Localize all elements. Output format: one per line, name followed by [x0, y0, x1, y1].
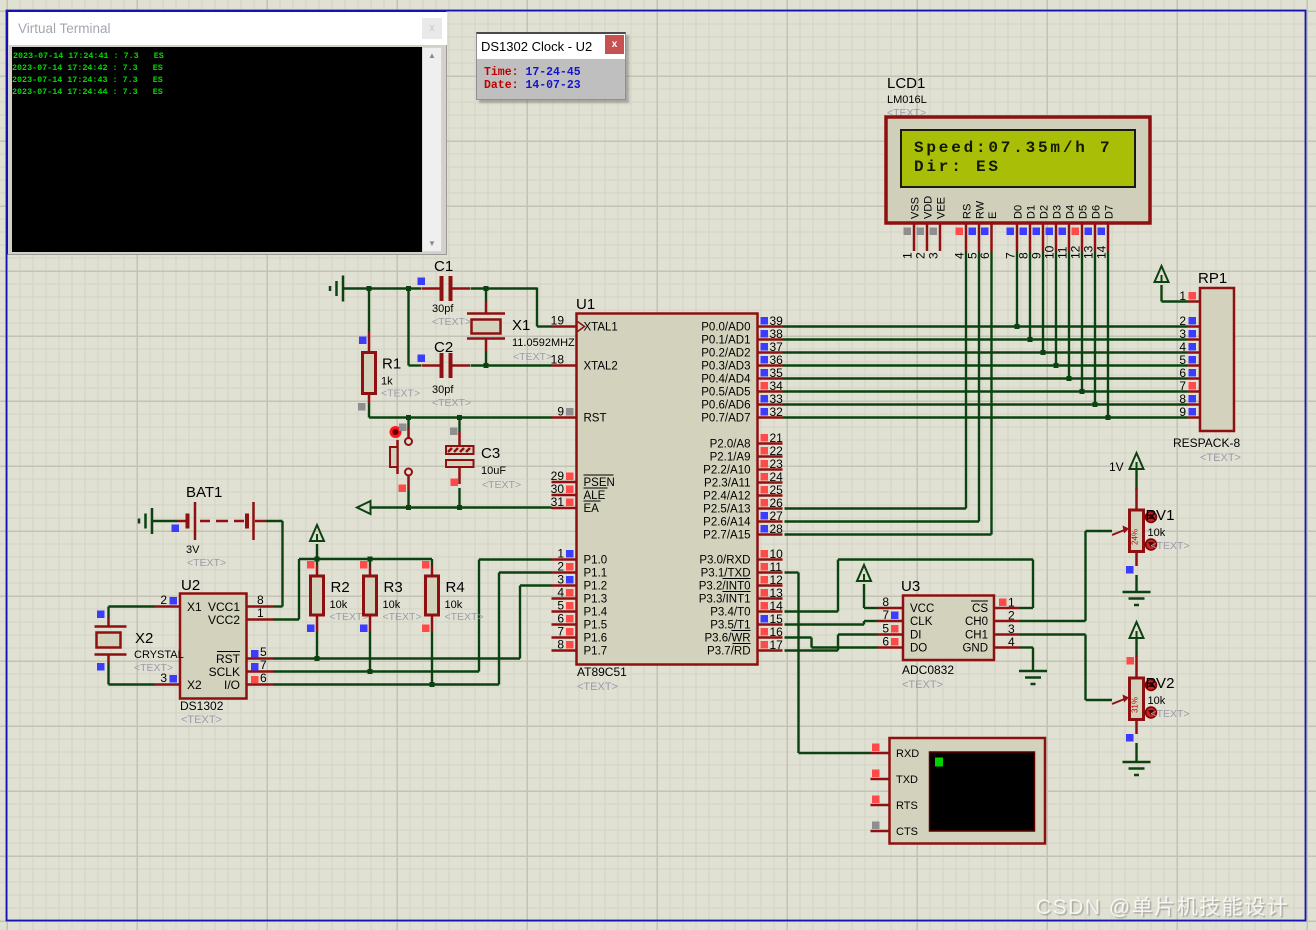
svg-text:VCC1: VCC1 — [208, 600, 240, 614]
resistor R4 body — [426, 576, 439, 615]
svg-text:RV1: RV1 — [1146, 507, 1175, 524]
pin U1.3 P1.2 (left) — [552, 584, 577, 587]
resistor R1 body — [363, 353, 376, 394]
svg-text:6: 6 — [557, 612, 564, 626]
pin U1.25 P2.4/A12 (right) — [758, 494, 783, 497]
svg-text:P1.1: P1.1 — [584, 568, 608, 580]
resistor R4 top stub — [431, 566, 434, 576]
pin U3.5 DI (left) — [878, 633, 904, 636]
svg-text:D0: D0 — [1013, 205, 1025, 219]
svg-text:SCLK: SCLK — [209, 665, 240, 679]
svg-text:X2: X2 — [135, 630, 153, 647]
svg-text:P1.3: P1.3 — [584, 594, 608, 606]
pin LCD1.6 E — [990, 223, 993, 251]
svg-text:29: 29 — [551, 469, 565, 483]
resistor R2 bottom state square — [307, 625, 315, 633]
svg-text:7: 7 — [882, 608, 889, 622]
svg-text:P2.1/A9: P2.1/A9 — [710, 452, 751, 464]
svg-text:5: 5 — [882, 622, 889, 636]
pin terminal TXD — [871, 778, 890, 781]
wire CLK net: U1 P3.5 pin15 to U3 CLK pin7 — [785, 623, 865, 625]
potentiometer RV1 body — [1130, 510, 1144, 552]
svg-text:AT89C51: AT89C51 — [577, 665, 627, 679]
potentiometer RV2 wiper arrow — [1112, 699, 1125, 704]
svg-text:RS: RS — [962, 204, 974, 219]
svg-text:14: 14 — [770, 599, 784, 613]
button bottom stub — [407, 476, 410, 491]
svg-text:VCC2: VCC2 — [208, 613, 240, 627]
svg-text:D6: D6 — [1091, 205, 1103, 219]
pin terminal RTS — [871, 804, 890, 807]
wire CH1 net: U3 pin3 to RV2 wiper — [1020, 633, 1086, 635]
svg-text:8: 8 — [1179, 392, 1186, 406]
pin U1.15 P3.5/T1 (right) — [758, 623, 783, 626]
capacitor C3 top state square — [450, 428, 458, 436]
pin U3.1 CS (right) — [994, 607, 1020, 610]
capacitor C3 top lead — [458, 432, 461, 446]
pin U1.14 P3.4/T0 (right) — [758, 610, 783, 613]
pin RP1.1 — [1187, 300, 1200, 303]
pin U3.2 CH0 (right) — [994, 620, 1020, 623]
wire C3 bottom to EA rail — [458, 488, 460, 508]
pin U1.5 P1.4 (left) — [552, 610, 577, 613]
svg-text:<TEXT>: <TEXT> — [181, 714, 222, 726]
pin U1.35 P0.4/AD4 (right) — [758, 377, 783, 380]
resistor R3 top stub — [369, 566, 372, 576]
pin U1.38 P0.1/AD1 (right) — [758, 338, 783, 341]
pin U1.16 P3.6/WR (right) — [758, 636, 783, 639]
wire R2 bottom — [316, 632, 318, 659]
svg-text:8: 8 — [557, 638, 564, 652]
virtual terminal component screen — [930, 752, 1035, 831]
wire U2 I/O net: pin6 to R4 bottom and P1.1 — [273, 683, 499, 685]
capacitor C2 state square — [418, 355, 426, 363]
wire XTAL1 net: ground rail to C1, X1 top, U1 pin19 — [344, 287, 422, 289]
node junction top rail at R1 — [367, 286, 372, 291]
svg-text:<TEXT>: <TEXT> — [432, 316, 471, 328]
pin LCD1.5 RW — [978, 223, 981, 251]
button bottom state square — [399, 485, 407, 493]
svg-text:30pf: 30pf — [432, 384, 454, 396]
pin U2.1 VCC2 (right) — [247, 618, 274, 621]
svg-text:8: 8 — [257, 593, 264, 607]
wire RP1 pin1 to power arrow — [1162, 300, 1188, 302]
pin U3.8 VCC (left) — [878, 607, 904, 610]
svg-text:ALE: ALE — [584, 490, 606, 502]
svg-text:P0.3/AD3: P0.3/AD3 — [701, 361, 750, 373]
capacitor C2 right lead — [453, 364, 471, 367]
pin U1.2 P1.1 (left) — [552, 571, 577, 574]
wire P0.1 net: U1 pin 38 to LCD D1 and RP1 pin 3 — [783, 338, 1188, 340]
svg-text:21: 21 — [770, 431, 784, 445]
resistor R2 bottom stub — [316, 615, 319, 632]
capacitor C2 plates — [440, 353, 444, 378]
svg-text:10k: 10k — [445, 599, 463, 611]
pin LCD1.3 VEE — [939, 223, 942, 251]
wire RV2 top stub from power — [1135, 638, 1137, 657]
wire X2 bottom to U2 X2 pin 3 — [107, 663, 109, 685]
wire P0.5 net: U1 pin 34 to LCD D5 and RP1 pin 7 — [783, 390, 1188, 392]
svg-text:TXD: TXD — [896, 774, 918, 786]
wire P0.7 net: U1 pin 32 to LCD D7 and RP1 pin 9 — [783, 416, 1188, 418]
svg-text:PSEN: PSEN — [584, 477, 615, 489]
wire P0.0 net: U1 pin 39 to LCD D0 and RP1 pin 2 — [783, 325, 1188, 327]
svg-text:RW: RW — [975, 200, 987, 219]
svg-text:P1.6: P1.6 — [584, 633, 608, 645]
wire BAT1 negative to ground — [152, 520, 177, 522]
pin terminal RXD — [871, 752, 890, 755]
button (reset) terminals and actuator — [405, 438, 412, 445]
svg-text:12: 12 — [1069, 245, 1083, 259]
svg-text:P2.7/A15: P2.7/A15 — [703, 530, 750, 542]
lcd LCD1 body — [886, 117, 1150, 223]
pin LCD1.2 VDD — [926, 223, 929, 251]
svg-text:X2: X2 — [187, 678, 202, 692]
svg-text:<TEXT>: <TEXT> — [1200, 452, 1241, 464]
svg-text:X1: X1 — [187, 600, 202, 614]
wire R4 top stub to rail — [431, 559, 433, 566]
resistor R1 bottom state square — [358, 403, 366, 411]
node junction EA rail at button bottom — [406, 505, 411, 510]
pin U1.22 P2.1/A9 (right) — [758, 455, 783, 458]
svg-text:<TEXT>: <TEXT> — [381, 388, 420, 400]
wire BAT1 positive to U2 VCC1 pin 8 — [266, 520, 283, 522]
node junction P0.7 at LCD D7 — [1106, 415, 1111, 420]
node junction P0.5 at LCD D5 — [1080, 389, 1085, 394]
svg-text:1k: 1k — [381, 376, 393, 388]
crystal X2 bottom state square — [97, 663, 105, 671]
crystal X1 bottom lead — [485, 339, 488, 352]
svg-text:BAT1: BAT1 — [186, 484, 222, 501]
crystal X2 bottom lead — [107, 655, 110, 664]
window Virtual Terminal — [7, 11, 447, 255]
svg-text:19: 19 — [551, 314, 565, 328]
svg-text:6: 6 — [260, 671, 267, 685]
capacitor C2 left lead — [422, 364, 440, 367]
svg-text:CS: CS — [972, 603, 988, 615]
wire resistor top rail R2 R3 R4 with power arrow — [299, 558, 432, 560]
svg-text:8: 8 — [1017, 252, 1031, 259]
svg-text:10: 10 — [1043, 245, 1057, 259]
wire P0.2 net: U1 pin 37 to LCD D2 and RP1 pin 4 — [783, 351, 1188, 353]
svg-text:<TEXT>: <TEXT> — [187, 557, 226, 569]
svg-text:R1: R1 — [382, 356, 401, 373]
svg-text:<TEXT>: <TEXT> — [1151, 708, 1190, 720]
pin RP1.6 — [1187, 377, 1200, 380]
pin LCD1.7 D0 — [1016, 223, 1019, 251]
svg-text:P3.0/RXD: P3.0/RXD — [699, 555, 750, 567]
svg-text:RV2: RV2 — [1146, 675, 1175, 692]
pin terminal CTS — [871, 830, 890, 833]
svg-text:6: 6 — [978, 252, 992, 259]
pin U1.37 P0.2/AD2 (right) — [758, 351, 783, 354]
wire X1 top lead green segment — [485, 289, 487, 302]
svg-text:2: 2 — [557, 560, 564, 574]
pin RP1.7 — [1187, 390, 1200, 393]
node junction top rail at X1 top lead — [484, 286, 489, 291]
svg-text:P3.2/INT0: P3.2/INT0 — [699, 581, 751, 593]
capacitor C1 right lead — [453, 287, 471, 290]
svg-text:P3.6/WR: P3.6/WR — [704, 633, 750, 645]
resistor R1 top state square — [359, 337, 367, 345]
svg-text:C2: C2 — [434, 339, 453, 356]
battery BAT1 cells — [177, 520, 186, 523]
pin RP1.3 — [1187, 338, 1200, 341]
svg-text:11: 11 — [1056, 246, 1070, 259]
pin U1.4 P1.3 (left) — [552, 597, 577, 600]
resistor R4 top state square — [422, 561, 430, 569]
svg-text:23: 23 — [770, 457, 784, 471]
svg-text:P2.6/A14: P2.6/A14 — [703, 517, 751, 529]
svg-text:P2.3/A11: P2.3/A11 — [704, 478, 750, 490]
pin LCD1.10 D3 — [1055, 223, 1058, 251]
pin U1.31 EA (left) — [552, 507, 577, 510]
svg-text:P3.5/T1: P3.5/T1 — [710, 620, 750, 632]
pin U1.32 P0.7/AD7 (right) — [758, 416, 783, 419]
button top stub — [407, 428, 410, 438]
ic U1 AT89C51 body — [577, 314, 758, 665]
svg-text:LM016L: LM016L — [887, 94, 927, 106]
pin U1.30 ALE (left) — [552, 494, 577, 497]
ground at U3 GND — [1019, 670, 1047, 673]
resistor R3 bottom stub — [369, 615, 372, 632]
svg-text:2: 2 — [1008, 609, 1015, 623]
node junction SCLK net at R3 bottom — [368, 669, 373, 674]
svg-text:2: 2 — [914, 252, 928, 259]
wire U2 SCLK net: pin7 to R3 bottom and P1.0 — [273, 670, 479, 672]
svg-text:VCC: VCC — [910, 603, 934, 615]
svg-text:<TEXT>: <TEXT> — [134, 662, 173, 674]
wire DO net: U1 P3.6 pin16 to U3 DO pin6 — [785, 636, 812, 638]
svg-text:D7: D7 — [1104, 205, 1116, 219]
button top state square — [399, 424, 407, 432]
svg-text:<TEXT>: <TEXT> — [902, 679, 943, 691]
pin U3.4 GND (right) — [994, 646, 1020, 649]
ground at BAT1 — [151, 508, 154, 534]
wire TXD net: U1 pin11 to terminal RXD — [785, 571, 799, 573]
svg-text:31%: 31% — [1131, 697, 1140, 713]
potentiometer RV2 bottom state square — [1126, 734, 1134, 742]
pin U1.34 P0.5/AD5 (right) — [758, 390, 783, 393]
svg-text:1: 1 — [1008, 596, 1015, 610]
pin U1.39 P0.0/AD0 (right) — [758, 325, 783, 328]
svg-text:<TEXT>: <TEXT> — [1151, 540, 1190, 552]
svg-text:1V: 1V — [1109, 460, 1124, 474]
wire LCD RW to U1 P2.6 pin 27 — [785, 520, 980, 522]
svg-text:R3: R3 — [384, 579, 403, 596]
pin U1.19 XTAL1 (left) — [552, 325, 577, 328]
wire P0.6 net: U1 pin 33 to LCD D6 and RP1 pin 8 — [783, 403, 1188, 405]
svg-text:U1: U1 — [576, 296, 595, 313]
svg-text:8: 8 — [882, 595, 889, 609]
svg-text:1: 1 — [257, 606, 264, 620]
svg-text:9: 9 — [1030, 252, 1044, 259]
power symbol above R2 — [310, 525, 324, 541]
svg-text:2: 2 — [1179, 314, 1186, 328]
pin U2.8 VCC1 (right) — [247, 605, 274, 608]
wire C2 left branch vertical from top rail — [407, 289, 409, 366]
pin U1.10 P3.0/RXD (right) — [758, 558, 783, 561]
svg-text:<TEXT>: <TEXT> — [513, 351, 552, 363]
svg-text:P1.2: P1.2 — [584, 581, 608, 593]
pin U1.1 P1.0 (left) — [552, 558, 577, 561]
svg-text:P1.4: P1.4 — [584, 607, 608, 619]
crystal X2 top lead — [107, 618, 110, 627]
pin U2.2 X1 (left) — [155, 605, 181, 608]
node junction XTAL2 at X1 bottom lead — [484, 363, 489, 368]
pin LCD1.12 D5 — [1081, 223, 1084, 251]
wire EA rail with left arrow endpoint — [357, 501, 371, 514]
svg-text:R4: R4 — [446, 579, 465, 596]
wire R4 bottom — [431, 632, 433, 685]
svg-text:P1.0: P1.0 — [584, 555, 608, 567]
node junction top rail at R2 — [315, 557, 320, 562]
svg-text:C1: C1 — [434, 258, 453, 275]
node junction P0.2 at LCD D2 — [1041, 350, 1046, 355]
svg-text:31: 31 — [551, 495, 565, 509]
svg-text:RXD: RXD — [896, 748, 919, 760]
svg-text:P0.1/AD1: P0.1/AD1 — [701, 335, 750, 347]
pin U1.8 P1.7 (left) — [552, 649, 577, 652]
svg-text:1: 1 — [557, 547, 564, 561]
svg-text:P3.1/TXD: P3.1/TXD — [701, 568, 751, 580]
wire P0.4 net: U1 pin 35 to LCD D4 and RP1 pin 6 — [783, 377, 1188, 379]
pin LCD1.11 D4 — [1068, 223, 1071, 251]
pin U1.29 PSEN (left) — [552, 481, 577, 484]
potentiometer RV2 body — [1130, 678, 1144, 720]
svg-text:9: 9 — [557, 405, 564, 419]
svg-text:CH1: CH1 — [965, 630, 988, 642]
virtual terminal component body — [890, 738, 1046, 844]
wire R3 bottom — [369, 632, 371, 672]
resistor R2 top stub — [316, 566, 319, 576]
svg-text:10k: 10k — [1148, 527, 1166, 539]
potentiometer RV1 wiper arrow — [1112, 530, 1125, 535]
wire RST rail: R1 bottom to U1 pin 9 — [368, 404, 370, 418]
svg-text:14: 14 — [1095, 245, 1109, 259]
potentiometer RV2 adjust buttons — [1146, 680, 1157, 691]
svg-text:<TEXT>: <TEXT> — [432, 397, 471, 409]
node junction RST rail at C3 — [457, 415, 462, 420]
svg-text:9: 9 — [1179, 405, 1186, 419]
svg-text:U3: U3 — [901, 578, 920, 595]
wire RV1 bottom to ground — [1135, 575, 1137, 592]
wire R1 top branch from top rail — [368, 289, 370, 333]
svg-text:28: 28 — [770, 522, 784, 536]
pin U1.18 XTAL2 (left) — [552, 364, 577, 367]
svg-text:35: 35 — [770, 366, 784, 380]
svg-text:<TEXT>: <TEXT> — [577, 681, 618, 693]
svg-text:3: 3 — [557, 573, 564, 587]
svg-text:I/O: I/O — [224, 678, 240, 692]
svg-text:27: 27 — [770, 509, 784, 523]
potentiometer RV2 top stub — [1135, 656, 1138, 678]
svg-text:13: 13 — [770, 586, 784, 600]
resistor R3 bottom state square — [360, 625, 368, 633]
svg-text:5: 5 — [260, 645, 267, 659]
svg-text:24: 24 — [770, 470, 784, 484]
node junction P0.0 at LCD D0 — [1015, 324, 1020, 329]
resistor R2 body — [311, 576, 324, 615]
svg-text:37: 37 — [770, 340, 784, 354]
wire CS net: U1 P3.4 pin14 to U3 CS pin1 — [785, 610, 839, 612]
svg-text:CH0: CH0 — [965, 616, 988, 628]
svg-text:<TEXT>: <TEXT> — [445, 611, 484, 623]
node junction top rail at C2 branch — [406, 286, 411, 291]
svg-text:P2.2/A10: P2.2/A10 — [703, 465, 750, 477]
node junction I/O net at R4 bottom — [430, 682, 435, 687]
pin U1.17 P3.7/RD (right) — [758, 649, 783, 652]
pin RP1.4 — [1187, 351, 1200, 354]
svg-text:3: 3 — [927, 252, 941, 259]
svg-text:LCD1: LCD1 — [887, 75, 925, 92]
svg-text:P1.7: P1.7 — [584, 646, 608, 658]
wire U3 GND pin4 to ground — [1020, 646, 1033, 648]
wire R3 top stub to rail — [369, 559, 371, 566]
svg-text:VDD: VDD — [923, 196, 935, 219]
svg-text:DI: DI — [910, 630, 922, 642]
capacitor C3 positive plate — [446, 446, 474, 454]
indicator red splat at reset button — [390, 426, 402, 438]
wire P0.3 net: U1 pin 36 to LCD D3 and RP1 pin 5 — [783, 364, 1188, 366]
pin U3.6 DO (left) — [878, 646, 904, 649]
svg-text:VSS: VSS — [910, 197, 922, 219]
svg-text:P0.2/AD2: P0.2/AD2 — [701, 348, 750, 360]
svg-text:RP1: RP1 — [1198, 270, 1227, 287]
pin LCD1.9 D2 — [1042, 223, 1045, 251]
pin RP1.8 — [1187, 403, 1200, 406]
svg-text:P2.5/A13: P2.5/A13 — [703, 504, 750, 516]
svg-text:25: 25 — [770, 483, 784, 497]
svg-text:5: 5 — [1179, 353, 1186, 367]
svg-text:39: 39 — [770, 314, 784, 328]
potentiometer RV2 bottom stub — [1135, 720, 1138, 735]
svg-text:P0.0/AD0: P0.0/AD0 — [701, 322, 750, 334]
svg-text:Dir: ES: Dir: ES — [914, 158, 1001, 176]
resistor R3 body — [364, 576, 377, 615]
svg-text:7: 7 — [557, 625, 564, 639]
svg-text:36: 36 — [770, 353, 784, 367]
pin LCD1.14 D7 — [1107, 223, 1110, 251]
ic U3 ADC0832 body — [903, 596, 994, 661]
svg-text:P0.4/AD4: P0.4/AD4 — [701, 374, 751, 386]
wire U2 VCC2 pin1 to resistor top rail — [273, 618, 299, 620]
svg-text:C3: C3 — [481, 445, 500, 462]
node junction RST net at R2 bottom — [315, 656, 320, 661]
node junction RST rail at button — [406, 415, 411, 420]
svg-text:RESPACK-8: RESPACK-8 — [1173, 436, 1240, 450]
wire 1V power to RV1 top — [1135, 470, 1137, 490]
pin U1.11 P3.1/TXD (right) — [758, 571, 783, 574]
pin U1.23 P2.2/A10 (right) — [758, 468, 783, 471]
svg-text:P0.7/AD7: P0.7/AD7 — [701, 413, 750, 425]
terminal screen — [12, 47, 422, 252]
wire DI net: U1 P3.7 pin17 to U3 DI pin5 — [785, 649, 839, 651]
ground at RV2 — [1123, 761, 1151, 764]
svg-text:10: 10 — [770, 547, 784, 561]
svg-text:P3.3/INT1: P3.3/INT1 — [699, 594, 751, 606]
svg-text:1: 1 — [901, 252, 915, 259]
svg-text:33: 33 — [770, 392, 784, 406]
svg-text:U2: U2 — [181, 577, 200, 594]
svg-text:15: 15 — [770, 612, 784, 626]
svg-text:RTS: RTS — [896, 800, 918, 812]
crystal X1 plates and body — [467, 312, 505, 315]
pin U1.21 P2.0/A8 (right) — [758, 442, 783, 445]
node junction P0.3 at LCD D3 — [1054, 363, 1059, 368]
svg-text:P2.4/A12: P2.4/A12 — [703, 491, 750, 503]
pin LCD1.1 VSS — [913, 223, 916, 251]
